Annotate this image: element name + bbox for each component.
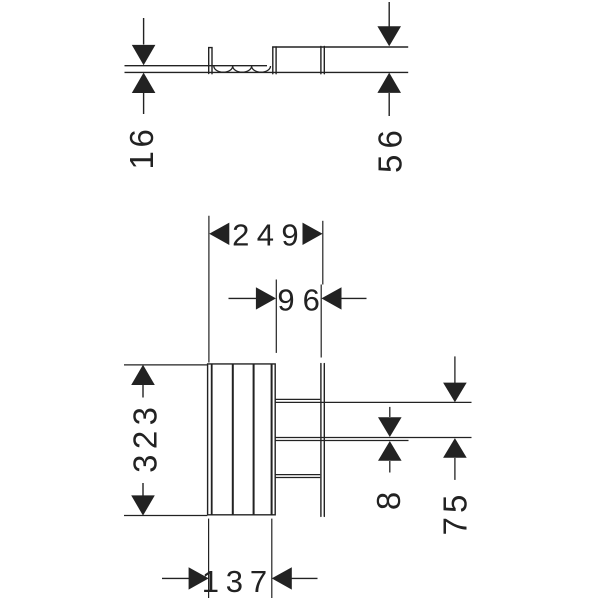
dim 249 extension right [322, 221, 324, 285]
pipe 3 bottom [275, 477, 320, 479]
dim 137 extension right [271, 519, 273, 598]
dim 137 shaft right [292, 577, 318, 579]
svg-text:323: 323 [126, 402, 163, 473]
dim 8 shaft bottom [389, 461, 391, 473]
dim 16 arrow up [132, 73, 156, 93]
dim 56 shaft bottom [388, 93, 390, 116]
wall bottom line [125, 71, 409, 73]
plate bar front view [320, 364, 322, 517]
dim 137 arrow right-pointing [189, 567, 209, 589]
svg-text:249: 249 [232, 218, 306, 253]
svg-text:56: 56 [372, 124, 409, 173]
plate right cap [320, 46, 322, 73]
plate top edge and reference line [272, 46, 408, 48]
dim 8 arrow down [378, 417, 402, 437]
box outline [208, 364, 276, 515]
dim 75 shaft top [454, 356, 456, 383]
dim 137 arrow left-pointing [272, 567, 292, 589]
dim 56 arrow up [377, 73, 401, 93]
dim 137 shaft left [162, 577, 189, 579]
dim 8 shaft top [389, 407, 391, 417]
pipe 3 top [275, 474, 320, 476]
dim 323 shaft bottom [142, 483, 144, 496]
box inner vertical 2 [232, 364, 234, 515]
dim 96 shaft right [341, 297, 367, 299]
box inner vertical 1 [211, 364, 213, 515]
dim 16 shaft bottom [143, 93, 145, 114]
dim 16 shaft top [143, 18, 145, 45]
dim 75 shaft bottom [454, 458, 456, 480]
dim 16 arrow down [132, 45, 156, 65]
dim 249 arrow left [209, 223, 229, 245]
wall top line [125, 65, 268, 67]
dim 75 arrow up [443, 438, 467, 458]
dim 323 extension top [124, 364, 207, 366]
dim 323 shaft top [142, 385, 144, 398]
dim 56 arrow down [377, 26, 401, 46]
dim 75 arrow down [443, 383, 467, 403]
plate left cap [272, 47, 274, 74]
dim 249 arrow right [303, 223, 323, 245]
svg-text:137: 137 [202, 564, 274, 599]
pipe 1 bottom / 75 reference top [275, 401, 471, 403]
dim 8 arrow up [378, 441, 402, 461]
svg-text:8: 8 [370, 492, 407, 510]
dim 96 extension right lower [320, 285, 322, 358]
svg-text:16: 16 [123, 126, 160, 170]
dim 96 arrow left-pointing [321, 287, 341, 309]
dim 96 extension left [275, 280, 277, 353]
pipe 2 top / 75 reference bottom [275, 437, 471, 439]
box inner vertical 4 [271, 364, 273, 515]
dim 137 extension left [208, 519, 210, 598]
pipe 1 top [275, 398, 320, 400]
dim 56 shaft top [388, 2, 390, 27]
dim 96 shaft left [229, 297, 258, 299]
dim 323 arrow down [131, 495, 155, 515]
svg-text:75: 75 [437, 490, 474, 535]
dim 249 extension left [208, 216, 210, 363]
dim 96 arrow right-pointing [256, 287, 276, 309]
dim 323 extension bottom [124, 515, 207, 517]
svg-text:96: 96 [277, 282, 327, 317]
scallops [214, 66, 271, 72]
box inner vertical 3 [253, 364, 255, 515]
pipe 2 bottom [275, 440, 408, 442]
clip flange [209, 48, 212, 74]
dim 323 arrow up [131, 365, 155, 385]
